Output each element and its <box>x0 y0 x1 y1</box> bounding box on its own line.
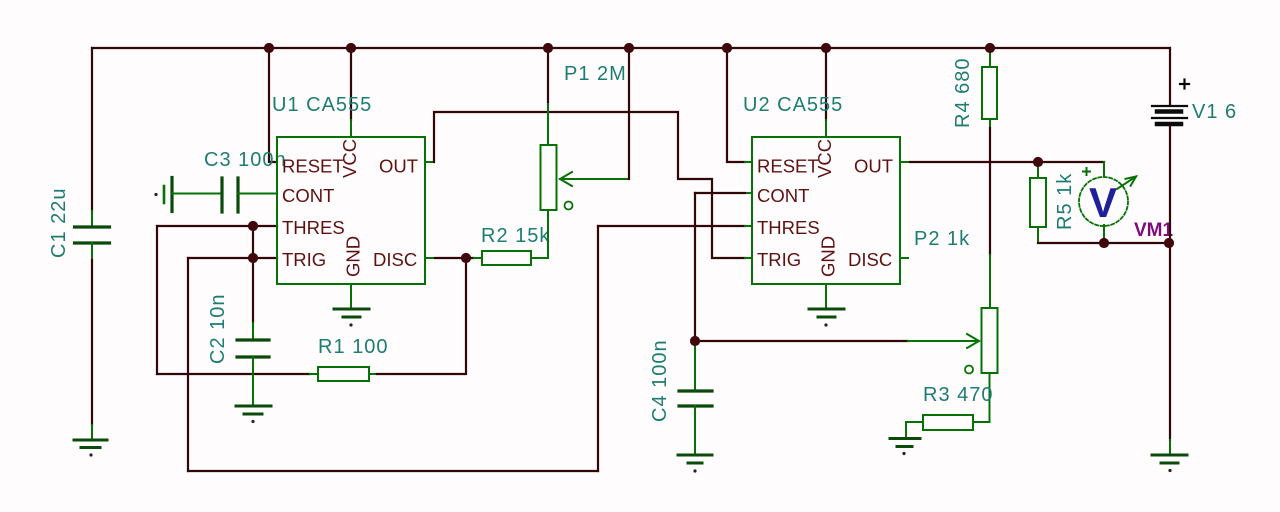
wire: top VCC rail <box>92 47 1170 49</box>
resistor R3 <box>923 415 973 430</box>
svg-text:P1 2M: P1 2M <box>564 63 627 85</box>
wire: U1 RESET from rail <box>269 48 277 162</box>
svg-text:R3 470: R3 470 <box>923 384 994 406</box>
P1 wiper arrow <box>560 178 629 180</box>
svg-text:DISC: DISC <box>848 249 892 270</box>
P1 wiper marker o <box>565 202 573 210</box>
svg-text:U1 CA555: U1 CA555 <box>272 94 372 116</box>
node: rail / R4 <box>985 43 995 53</box>
wire: U2 OUT to meter <box>900 161 910 163</box>
wire: U1 TRIG left <box>188 257 277 259</box>
potentiometer P2 <box>982 308 998 373</box>
svg-text:TRIG: TRIG <box>282 249 326 270</box>
wire: R4 top lead from rail <box>989 48 991 67</box>
wire: C3 to U1 CONT <box>238 193 277 195</box>
svg-text:VM1: VM1 <box>1134 220 1174 241</box>
node: CONT2 / C4 / P2 wiper <box>690 336 700 346</box>
wire: C3 left lead <box>172 193 222 195</box>
wire: P2 bottom to R3 <box>973 373 990 422</box>
wire: C4 top lead <box>694 345 696 391</box>
wire: U1 GND stub <box>350 284 352 309</box>
node: TRIG1 / C2 <box>248 253 258 263</box>
ground below C2 <box>236 405 271 408</box>
wire: R5 bottom lead <box>1037 227 1039 243</box>
resistor R1 <box>318 367 369 381</box>
svg-text:VCC: VCC <box>339 139 360 178</box>
wire: C1 top lead <box>91 48 93 211</box>
wire: VM1 top lead <box>1103 162 1105 178</box>
resistor R4 <box>982 67 997 119</box>
svg-text:P2 1k: P2 1k <box>914 228 970 250</box>
node: DISC1 / R1 <box>461 253 471 263</box>
wire: battery bottom lead <box>1169 126 1171 440</box>
node: rail / P1 wiper <box>624 43 634 53</box>
wire: C2 bottom lead <box>252 357 254 406</box>
wire: U2 GND stub <box>825 284 827 309</box>
voltmeter VM1 <box>1079 177 1128 226</box>
wire: VM1 bottom lead <box>1103 225 1105 243</box>
wire: R2 right to P1 bottom <box>531 210 548 258</box>
svg-text:C2 10n: C2 10n <box>207 294 229 365</box>
battery V1 plates <box>1152 105 1187 107</box>
wire: U1 VCC from rail <box>350 48 352 120</box>
node: VM1 bottom <box>1099 238 1109 248</box>
ground at battery <box>1152 454 1187 457</box>
wire: up to U2 THRES <box>597 226 599 471</box>
VM1 arrow <box>1117 177 1136 190</box>
resistor R5 <box>1030 178 1046 227</box>
capacitor C1 plates <box>75 225 110 228</box>
ground below U2 <box>809 308 844 311</box>
potentiometer P1 <box>541 145 557 210</box>
svg-text:CONT: CONT <box>757 185 809 206</box>
node: rail / VCC2 <box>821 43 831 53</box>
wire: U1 DISC to R2 <box>425 257 435 259</box>
wire: C4 node to P2 wiper <box>695 340 908 342</box>
ground at R3 <box>890 437 920 440</box>
svg-text:V1 6: V1 6 <box>1192 101 1237 123</box>
battery plus <box>1180 83 1189 85</box>
svg-text:TRIG: TRIG <box>757 249 801 270</box>
wire: U2 VCC from rail <box>825 48 827 120</box>
wire: U1 THRES left <box>157 225 277 227</box>
resistor R2 <box>482 251 531 265</box>
wire: bottom run <box>188 470 598 472</box>
svg-text:U2 CA555: U2 CA555 <box>743 94 843 116</box>
svg-text:CONT: CONT <box>282 185 334 206</box>
wire: C4 bottom lead <box>694 406 696 455</box>
wire: R1 right up to DISC <box>369 373 377 375</box>
svg-text:GND: GND <box>818 236 839 277</box>
wire: R3 left to ground <box>906 422 923 438</box>
node: rail / RESET1 <box>264 43 274 53</box>
P2 wiper marker o <box>965 366 973 374</box>
node: rail / P1 top <box>543 43 553 53</box>
op-amp/timer U2 box <box>752 137 900 284</box>
ground below C4 <box>678 454 712 457</box>
wire: P1 top lead from rail <box>547 48 549 104</box>
battery V1 top lead <box>1169 48 1171 105</box>
svg-text:C1 22u: C1 22u <box>48 188 70 259</box>
ground below C1 <box>74 439 107 442</box>
wire: R4 down to P2 <box>989 119 991 128</box>
svg-text:DISC: DISC <box>373 249 417 270</box>
svg-text:R2 15k: R2 15k <box>481 225 550 247</box>
wire: C1 bottom lead <box>91 243 93 260</box>
node: THRES1 / C2 <box>248 221 258 231</box>
node: OUT2 / R5 <box>1033 157 1043 167</box>
VM1 plus <box>1083 171 1090 173</box>
svg-text:R1 100: R1 100 <box>318 336 389 358</box>
wire: to R1 left <box>157 373 310 375</box>
node: battery run <box>1164 238 1174 248</box>
wire: P1 wiper up to rail <box>628 48 630 179</box>
svg-text:R4 680: R4 680 <box>952 58 974 129</box>
wire: THRES/TRIG node down to C2 <box>252 226 254 323</box>
capacitor C3 plates <box>220 178 223 212</box>
wire: R5 top lead <box>1037 162 1039 178</box>
svg-text:C3 100n: C3 100n <box>204 149 287 171</box>
wire: U2 CONT to C4 node <box>745 192 752 194</box>
wire: THRES down to R1 row <box>156 226 158 374</box>
node: rail / VCC1 <box>346 43 356 53</box>
svg-text:R5 1k: R5 1k <box>1054 173 1076 230</box>
P2 wiper arrow <box>967 334 979 348</box>
node: rail / RESET2 <box>722 43 732 53</box>
wire: TRIG down to bottom run <box>187 258 189 471</box>
svg-text:RESET: RESET <box>282 156 344 177</box>
svg-text:V: V <box>1089 179 1117 226</box>
op-amp/timer U1 box <box>277 137 425 284</box>
svg-text:RESET: RESET <box>757 156 819 177</box>
wire: U2 THRES left <box>598 225 745 227</box>
svg-text:OUT: OUT <box>854 156 893 177</box>
wire: U1 OUT staircase to U2 TRIG <box>425 161 434 163</box>
ground below U1 <box>334 308 369 311</box>
svg-text:OUT: OUT <box>379 156 418 177</box>
svg-text:GND: GND <box>343 236 364 277</box>
svg-text:C4 100n: C4 100n <box>649 339 671 422</box>
svg-text:VCC: VCC <box>814 139 835 178</box>
svg-text:THRES: THRES <box>757 217 820 238</box>
capacitor C4 plates <box>679 389 712 392</box>
wire: U2 DISC stub <box>900 257 908 259</box>
wire: U2 RESET from rail <box>727 48 745 162</box>
capacitor C3 open terminal <box>154 193 157 196</box>
capacitor C2 plates <box>237 338 269 341</box>
wire: meter bottom run <box>1038 242 1169 244</box>
svg-text:THRES: THRES <box>282 217 345 238</box>
